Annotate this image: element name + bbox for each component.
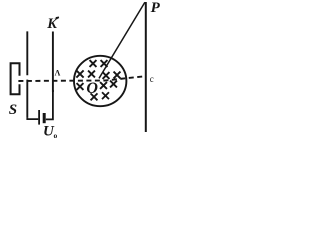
field symbol x1 xyxy=(90,60,97,67)
svg-text:O: O xyxy=(86,80,98,97)
field symbol x6 xyxy=(114,72,121,79)
battery U0 long plate xyxy=(38,110,40,125)
svg-text:Λ: Λ xyxy=(55,69,61,78)
field symbol x5 xyxy=(103,72,110,79)
svg-text:P: P xyxy=(151,0,161,16)
svg-text:c: c xyxy=(150,74,154,84)
field symbol x7 xyxy=(77,83,84,90)
field symbol x8 xyxy=(100,82,107,89)
svg-text:S: S xyxy=(9,102,17,118)
electrode plate (left, with hole) xyxy=(26,31,28,117)
sight line from P to centre xyxy=(99,2,145,78)
field symbol x2 xyxy=(101,60,108,67)
screen P xyxy=(145,2,147,132)
stray tick near K xyxy=(56,16,59,19)
magnetic field region circle xyxy=(74,56,126,106)
field symbol x3 xyxy=(76,70,83,77)
electron source box S xyxy=(11,63,20,94)
wire from battery up to plate K xyxy=(46,90,53,119)
field symbol x10 xyxy=(91,93,98,100)
field symbol x11 xyxy=(102,92,109,99)
field symbol x4 xyxy=(88,71,95,78)
accelerating electrode K xyxy=(52,32,54,93)
beam axis dashed line xyxy=(18,76,145,81)
svg-text:o: o xyxy=(54,131,58,140)
wire from left plate to battery xyxy=(27,118,38,120)
field symbol x9 xyxy=(110,81,117,88)
battery U0 short plate xyxy=(43,113,46,123)
